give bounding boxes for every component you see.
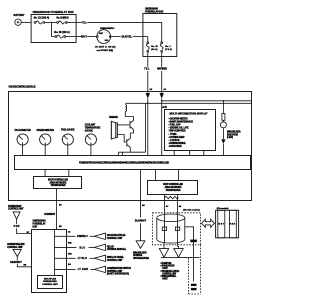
- svg-text:BLK/YEL: BLK/YEL: [121, 36, 132, 39]
- svg-text:UNDER-DASH: UNDER-DASH: [33, 220, 46, 223]
- transistor Q2: [127, 139, 131, 148]
- stubs strip to B-CAN transceiver: [44, 170, 46, 177]
- svg-text:CONTROL MODULE: CONTROL MODULE: [107, 249, 126, 251]
- in-line connector (CAN-L): [175, 227, 179, 231]
- svg-text:MET: MET: [219, 223, 225, 225]
- immobilizer receiver branch wire BLK/WHT: [135, 170, 147, 241]
- svg-text:- TRIP COMPUTER: - TRIP COMPUTER: [169, 131, 186, 133]
- wire BLK/YEL into left fuse: [147, 37, 149, 42]
- power supply controller strip: [15, 156, 251, 170]
- node rail2/YEL: [147, 103, 149, 105]
- svg-text:BLK/WHT: BLK/WHT: [135, 221, 147, 223]
- svg-text:TRANSCEIVER: TRANSCEIVER: [51, 184, 66, 187]
- svg-text:CONTROL UNIT: CONTROL UNIT: [8, 209, 24, 211]
- svg-text:ORN/BLU: ORN/BLU: [77, 236, 88, 238]
- wire YEL below box: [144, 52, 150, 93]
- svg-text:COMBINATION SWITCH: COMBINATION SWITCH: [107, 267, 131, 270]
- svg-text:POWER SUPPLY / GAUGE CONTROL/D: POWER SUPPLY / GAUGE CONTROL/DRIVER AND …: [79, 162, 169, 165]
- svg-text:RED/WHT: RED/WHT: [10, 262, 22, 264]
- stub to strip: [122, 152, 124, 155]
- svg-text:(S-NET SUPERVISOR): (S-NET SUPERVISOR): [107, 274, 129, 276]
- svg-text:(Not KA models): (Not KA models): [183, 208, 200, 211]
- bracket line under arrows: [161, 256, 200, 258]
- svg-text:LT GRN: LT GRN: [78, 269, 88, 271]
- svg-text:CONTROL UNIT: CONTROL UNIT: [42, 284, 58, 286]
- node rail1/immobilizer: [223, 100, 225, 102]
- svg-text:TEMPERATURE: TEMPERATURE: [85, 127, 101, 130]
- svg-text:No. 23: No. 23: [151, 46, 158, 48]
- F-CAN junction connector box: [216, 210, 239, 238]
- wire WHT/RED to power rail and strip: [161, 99, 163, 155]
- svg-text:YEL: YEL: [81, 21, 87, 24]
- multiplex integrated control unit: [38, 276, 63, 289]
- svg-text:AREA NETWORK: AREA NETWORK: [50, 181, 67, 184]
- svg-text:BEEPER: BEEPER: [109, 117, 118, 119]
- svg-text:MULTIPLEX: MULTIPLEX: [44, 278, 57, 280]
- svg-text:AREA NETWORK: AREA NETWORK: [165, 186, 182, 189]
- wire: [222, 120, 224, 122]
- battery B1: [14, 14, 25, 26]
- svg-text:LT BLU: LT BLU: [78, 258, 87, 260]
- B-CAN bus vertical: [54, 230, 56, 276]
- underhood fuse/relay box: [31, 11, 76, 43]
- svg-text:• VSA MODULATOR-: • VSA MODULATOR-: [160, 270, 179, 273]
- power seat control unit source: [8, 205, 24, 219]
- branch LT GRN to combination switch control unit: [55, 263, 132, 276]
- svg-text:POWER SEAT: POWER SEAT: [8, 205, 22, 208]
- svg-text:- PARKING BRAKE: - PARKING BRAKE: [169, 142, 186, 145]
- svg-text:RELAY: RELAY: [107, 245, 114, 248]
- coolant temperature gauge: [85, 124, 101, 145]
- node rail1/WHT-RED: [161, 100, 163, 102]
- svg-text:CONTROL UNIT: CONTROL UNIT: [7, 247, 23, 249]
- wire: [222, 128, 224, 140]
- svg-text:GAUGE CONTROL MODULE: GAUGE CONTROL MODULE: [9, 85, 36, 88]
- svg-text:- MAINT. MAINTENANCE: - MAINT. MAINTENANCE: [169, 120, 194, 123]
- F-CAN destination list: [160, 263, 179, 281]
- svg-text:WHT: WHT: [81, 35, 88, 38]
- branch ORN/BLU to door multiplex control unit: [55, 230, 126, 240]
- wire CAN-H triangle stub: [163, 243, 165, 249]
- wire YEL row1 to under-dash box: [67, 21, 162, 24]
- svg-text:UNIT-RECEIVER: UNIT-RECEIVER: [133, 258, 149, 260]
- svg-text:BLU: BLU: [80, 247, 86, 249]
- wire junction down to row2: [52, 22, 56, 36]
- svg-text:ORN/WHT: ORN/WHT: [44, 214, 56, 216]
- F-CAN transceiver box: [148, 181, 198, 195]
- wire YEL inside box down: [161, 22, 163, 41]
- wire BLK/YEL ignition to under-dash fuse box: [111, 36, 148, 39]
- B-CAN wire down: [44, 189, 62, 230]
- svg-text:- DOOR OPEN: - DOOR OPEN: [169, 146, 182, 148]
- svg-text:IMMOBILIZER: IMMOBILIZER: [133, 253, 147, 255]
- fuse No.20 (120A): [54, 31, 70, 38]
- svg-text:(LED): (LED): [227, 137, 233, 139]
- node J1: [51, 22, 52, 23]
- svg-text:CONTROL UNIT: CONTROL UNIT: [107, 238, 123, 240]
- beeper speaker: [109, 117, 118, 139]
- wire CAN-L triangle stub: [178, 244, 179, 249]
- svg-text:CONTROL: CONTROL: [133, 255, 143, 257]
- beeper bottom wire: [119, 151, 146, 153]
- double arrow connector: [202, 219, 215, 227]
- svg-text:HANDSFREELINK: HANDSFREELINK: [7, 243, 25, 246]
- fuel gauge: [61, 129, 75, 145]
- fuse No.23 (10A): [146, 42, 158, 52]
- svg-text:CONTROL UNIT: CONTROL UNIT: [107, 260, 123, 262]
- wire PNK: [14, 219, 32, 234]
- svg-text:No. 10 (50 A): No. 10 (50 A): [57, 16, 69, 19]
- svg-text:TRANSCEIVER: TRANSCEIVER: [166, 189, 181, 192]
- stubs strip to F-CAN transceiver: [155, 170, 157, 182]
- wire Q2 emitter to bottom wire: [129, 148, 131, 153]
- wire WHT/RED below box: [157, 52, 167, 93]
- wire fuse22 to junction: [45, 21, 57, 23]
- svg-text:FAST CONTROLLER: FAST CONTROLLER: [163, 183, 183, 186]
- svg-text:CONTROL UNIT: CONTROL UNIT: [107, 271, 123, 273]
- under-dash fuse/relay box (bottom): [32, 220, 67, 293]
- svg-text:DOOR MULTIPLEX: DOOR MULTIPLEX: [107, 235, 126, 237]
- in-line connector on shield: [190, 240, 197, 243]
- tachometer gauge: [14, 129, 31, 145]
- svg-text:- ODO/TRIP METER: - ODO/TRIP METER: [169, 118, 188, 120]
- svg-text:MULTI-INFORMATION DISPLAY: MULTI-INFORMATION DISPLAY: [170, 113, 208, 116]
- svg-text:No. 22 (100 A): No. 22 (100 A): [34, 16, 50, 19]
- svg-text:GAUGE: GAUGE: [85, 129, 93, 132]
- power rail 1: [162, 100, 252, 102]
- svg-text:(7.5 A): (7.5 A): [165, 48, 172, 51]
- svg-text:- ENGINE OIL LIFE: - ENGINE OIL LIFE: [169, 128, 189, 130]
- svg-text:INTEGRATED: INTEGRATED: [43, 280, 57, 283]
- resistor R1: [222, 114, 225, 121]
- branch LT BLU to display panel control unit: [55, 253, 125, 262]
- svg-text:LCD: LCD: [162, 106, 167, 109]
- branch BLU to relay control module: [55, 243, 127, 252]
- svg-text:FUSE/RELAY: FUSE/RELAY: [33, 223, 46, 226]
- dashed shield tail: [189, 245, 201, 294]
- svg-text:WHT/RED: WHT/RED: [157, 69, 167, 71]
- B-CAN transceiver box: [34, 177, 82, 189]
- ground G1: [191, 284, 197, 291]
- svg-text:RES: RES: [230, 223, 236, 225]
- beeper right vertical wire: [145, 103, 147, 152]
- svg-text:YEL: YEL: [144, 69, 150, 71]
- svg-text:No. 20 (120 A): No. 20 (120 A): [54, 31, 70, 34]
- immobilizer indicator LED lamp: [220, 122, 240, 139]
- termination resistor R2: [165, 196, 179, 198]
- svg-text:BOX: BOX: [33, 227, 38, 229]
- dashed shield box: [152, 213, 200, 245]
- svg-text:IMMOBILIZER: IMMOBILIZER: [227, 132, 241, 134]
- wire speaker terminal 2: [117, 135, 126, 143]
- LCD multi-information display: [162, 106, 216, 150]
- handsfreelink control unit source: [7, 243, 25, 256]
- connector arrow (YEL): [146, 93, 150, 99]
- svg-text:BATTERY: BATTERY: [14, 14, 25, 17]
- LCD stubs to controller strip: [173, 150, 175, 155]
- svg-text:- TPMS: - TPMS: [169, 134, 177, 136]
- svg-text:INDICATOR: INDICATOR: [227, 133, 238, 136]
- arrow CAN-L down: [174, 249, 183, 258]
- svg-text:UNIT: UNIT: [162, 279, 168, 281]
- svg-text:- CRUISE: - CRUISE: [169, 140, 180, 142]
- diode D1: [221, 139, 225, 143]
- CAN-L wire down: [177, 195, 179, 244]
- immobilizer indicator branch wire: [222, 101, 224, 114]
- gauge stems to strip: [22, 145, 24, 155]
- CAN-H wire down: [164, 195, 166, 243]
- svg-text:DISPLAY PANEL: DISPLAY PANEL: [107, 256, 125, 259]
- svg-text:UNDERHOOD FUSE/RELAY BOX: UNDERHOOD FUSE/RELAY BOX: [33, 11, 74, 14]
- gauge control module box: [9, 85, 252, 200]
- twisted pair cylinder: [157, 214, 185, 243]
- svg-text:PNK: PNK: [14, 226, 20, 228]
- ignition switch SW1: [95, 28, 116, 52]
- speedometer gauge: [36, 130, 54, 145]
- in-line connector (CAN-H): [162, 227, 166, 231]
- arrow CAN-H down: [159, 249, 168, 258]
- svg-text:and START (III)): and START (III)): [97, 49, 114, 52]
- svg-text:TACHOMETER: TACHOMETER: [14, 129, 31, 132]
- svg-text:COOLANT: COOLANT: [85, 124, 96, 127]
- wire YEL to power rail and strip: [147, 99, 149, 155]
- transistor Q1: [130, 121, 134, 130]
- wire WHT row2 to ignition switch: [66, 35, 97, 38]
- coil L1: [125, 105, 126, 112]
- stub to strip: [118, 152, 120, 155]
- wire speaker terminal to Q1 base: [117, 124, 130, 126]
- svg-text:- OUTSIDE TEMP: - OUTSIDE TEMP: [169, 137, 185, 139]
- svg-text:(To MET in ON (II): (To MET in ON (II): [95, 47, 116, 49]
- arrow to immobilizer control unit-receiver: [133, 241, 149, 260]
- svg-text:BODY CONTROLLER: BODY CONTROLLER: [48, 179, 68, 181]
- connector arrow (WHT/RED): [160, 93, 164, 99]
- wire coil to Q1 collector: [125, 111, 133, 120]
- wire battery to underhood box: [21, 21, 31, 23]
- wire to strip: [222, 144, 224, 155]
- svg-text:- FUEL CAP: - FUEL CAP: [169, 124, 181, 127]
- shield drain wire: [185, 227, 194, 282]
- wire Q1 emitter to Q2 collector: [130, 130, 133, 139]
- power rail 2: [125, 102, 251, 104]
- svg-text:• NAVIGATION: • NAVIGATION: [160, 265, 174, 268]
- fuse No.1 (7.5A): [160, 42, 172, 52]
- svg-text:SPEEDOMETER: SPEEDOMETER: [36, 130, 54, 132]
- wire RED/WHT: [10, 257, 31, 267]
- svg-text:(10 A): (10 A): [151, 48, 157, 51]
- svg-text:No. 1: No. 1: [165, 46, 171, 48]
- fuse No.22 (100A): [34, 16, 50, 24]
- svg-text:FUEL GAUGE: FUEL GAUGE: [61, 129, 75, 132]
- svg-text:(KA models): (KA models): [217, 207, 229, 210]
- fuse No.10 (50A): [57, 16, 69, 24]
- under-dash fuse/relay box (top): [143, 8, 177, 57]
